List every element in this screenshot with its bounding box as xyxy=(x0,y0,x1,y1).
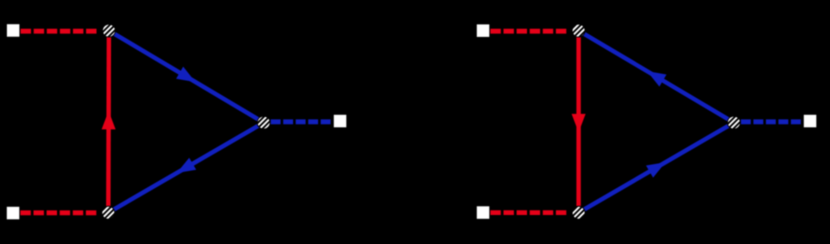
white square source, top-left, left diagram xyxy=(7,24,20,37)
blue arrow down-left, left diagram xyxy=(177,158,197,173)
blue arrow down-right, left diagram xyxy=(176,67,195,83)
dashed red scalar leg, bottom-left, left diagram xyxy=(20,210,98,215)
white square source, right, right diagram xyxy=(804,115,817,128)
hatched vertex blob, bottom, right diagram xyxy=(572,206,586,220)
hatched vertex blob, top, right diagram xyxy=(572,24,586,38)
dashed red scalar leg, top-left, left diagram xyxy=(21,29,99,34)
hatched vertex blob, right, left diagram xyxy=(257,116,271,130)
blue fermion line, top-right side, right diagram xyxy=(579,31,734,123)
dashed blue scalar leg, right, right diagram xyxy=(741,119,803,124)
blue fermion line, bottom-right side, left diagram xyxy=(108,123,263,213)
white square source, bottom-left, left diagram xyxy=(7,207,19,220)
hatched vertex blob, right, right diagram xyxy=(727,116,741,130)
dashed red scalar leg, bottom-left, right diagram xyxy=(490,210,568,215)
dashed blue scalar leg, right, left diagram xyxy=(271,119,333,124)
blue fermion line, top-right side, left diagram xyxy=(109,31,264,123)
dashed red scalar leg, top-left, right diagram xyxy=(490,29,568,34)
red fermion line, left side, left diagram xyxy=(106,31,111,213)
hatched vertex blob, top, left diagram xyxy=(102,24,116,38)
red arrow down, right diagram xyxy=(572,114,586,132)
white square source, right, left diagram xyxy=(334,115,347,128)
blue arrow up-right, right diagram xyxy=(646,162,666,177)
hatched vertex blob, bottom, left diagram xyxy=(101,206,115,220)
red arrow up, left diagram xyxy=(102,111,116,129)
blue fermion line, bottom-right side, right diagram xyxy=(579,123,734,213)
blue arrow up-left, right diagram xyxy=(647,71,667,87)
red fermion line, left side, right diagram xyxy=(576,31,580,213)
white square source, top-left, right diagram xyxy=(477,24,490,37)
white square source, bottom-left, right diagram xyxy=(477,206,490,219)
